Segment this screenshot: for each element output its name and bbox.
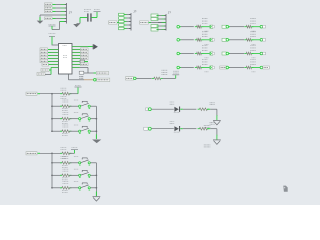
svg-text:J?: J? bbox=[168, 11, 171, 15]
svg-text:J?: J? bbox=[133, 10, 136, 14]
svg-text:J?: J? bbox=[69, 10, 73, 14]
